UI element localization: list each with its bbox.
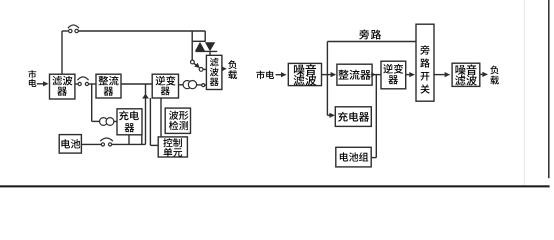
transformer T2 charger	[100, 118, 114, 126]
switch S3 node	[199, 68, 203, 72]
transformer T1 output	[183, 81, 197, 89]
table border bottom	[0, 185, 550, 187]
label bypass 旁路	[359, 29, 381, 39]
box battery 电池	[59, 135, 81, 154]
arrow into rectifier	[331, 72, 337, 77]
box bypass switch 旁路开关	[416, 24, 434, 101]
switch S3 static transfer	[191, 60, 200, 68]
arrow mains right	[276, 72, 287, 77]
label load right 负载	[490, 66, 499, 85]
wire	[62, 30, 68, 32]
wire stub to filter	[209, 51, 211, 55]
wire SCR bottom rail	[196, 50, 218, 52]
thyristor SCR1	[195, 42, 205, 51]
wire battery riser	[145, 84, 147, 144]
arrow inverter out	[406, 72, 415, 77]
box rectifier 整流器	[96, 74, 121, 98]
wire	[205, 84, 207, 86]
wire	[322, 74, 332, 76]
thyristor SCR2	[205, 42, 215, 51]
box battery pack 电池组	[336, 147, 371, 167]
diode battery feed arrow	[142, 94, 149, 99]
box control unit 控制单元	[158, 137, 187, 157]
wire	[197, 84, 202, 86]
wire bypass rail	[327, 41, 416, 43]
wire	[372, 74, 381, 76]
box noise filter B 噪音滤波	[452, 63, 480, 86]
box output filter 滤波器	[206, 55, 222, 89]
wire bypass riser right	[326, 42, 328, 75]
wire static switch left leg	[191, 31, 193, 60]
wire inverter to control unit	[150, 98, 158, 145]
wire static switch drop	[204, 31, 206, 41]
box waveform detect 波形检测	[165, 108, 190, 133]
arrow into inverter	[371, 72, 376, 77]
wire bypass riser	[61, 31, 63, 74]
switch S2 bypass	[68, 25, 79, 33]
wire charger branch right	[327, 75, 330, 116]
wire	[75, 83, 78, 85]
switch node output	[202, 84, 205, 87]
wire charger branch	[92, 84, 100, 121]
arrow to load	[222, 66, 227, 71]
box noise filter A 噪音滤波	[288, 63, 321, 85]
arrow to load right	[480, 72, 488, 77]
box inverter right 逆变器	[381, 61, 406, 89]
wire	[114, 121, 117, 123]
box rectifier right 整流器	[337, 64, 372, 85]
switch S1 mains	[77, 77, 88, 86]
arrow into charger	[329, 113, 335, 118]
box charger 充电器	[117, 109, 142, 135]
box input filter 滤波器	[50, 74, 75, 99]
wire	[179, 84, 184, 86]
table border right	[548, 0, 549, 178]
arrow mains input	[37, 81, 49, 86]
label load left 负载	[228, 60, 237, 79]
wire SCR top rail	[192, 40, 205, 42]
wire bypass top	[78, 30, 205, 32]
wire	[81, 143, 102, 145]
arrow bypass switch out	[434, 72, 450, 77]
wire	[112, 143, 146, 145]
switch S5 battery	[100, 138, 113, 146]
label mains left 市电	[28, 70, 36, 87]
wire charger output b	[141, 135, 143, 145]
wire	[88, 83, 96, 85]
box inverter 逆变器	[152, 74, 178, 98]
wire rectifier to inverter	[121, 83, 152, 85]
wire	[203, 68, 207, 70]
label mains right 市电	[256, 70, 274, 79]
wire inverter to control top	[160, 98, 162, 137]
faint column rule	[523, 0, 525, 185]
box charger right 充电器	[335, 107, 371, 127]
wire battery branch right	[371, 75, 376, 158]
wire charger output a	[128, 135, 130, 145]
